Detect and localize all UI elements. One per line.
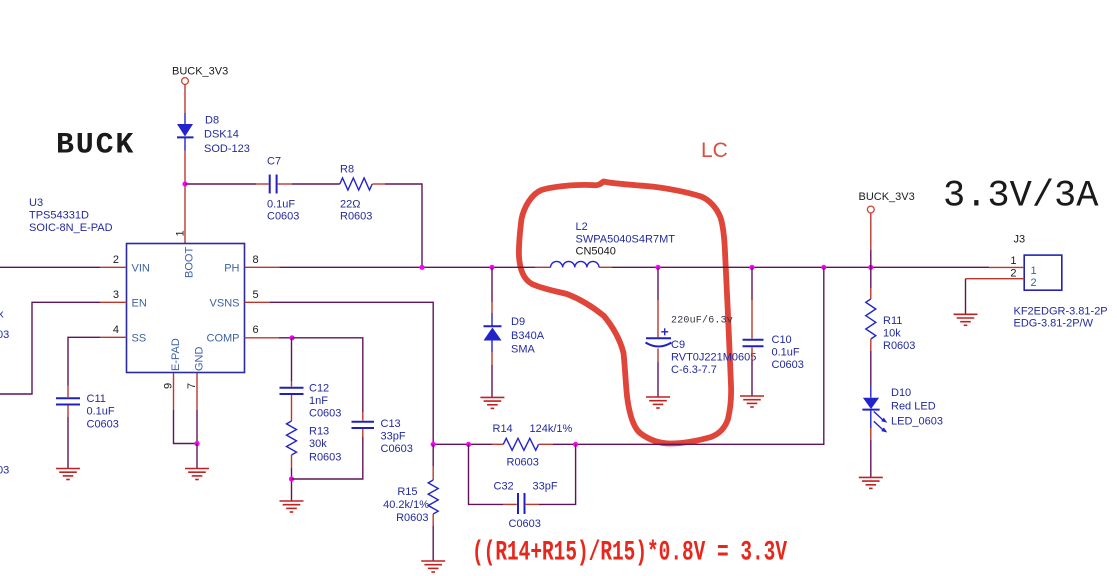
resistor R15 40.2k/1% (428, 480, 438, 514)
wire R8 to PH net (372, 183, 385, 185)
ground (C9) (646, 397, 670, 408)
svg-text:R11: R11 (883, 315, 902, 327)
svg-text:R8: R8 (340, 164, 354, 176)
resistor R13 30k (287, 421, 297, 455)
wire EN net to left edge (100, 301, 127, 303)
svg-text:EN: EN (132, 298, 147, 310)
wire C32 loop (469, 444, 504, 504)
wire BUCK_3V3 to D8 anode (184, 85, 186, 114)
svg-text:1nF: 1nF (309, 395, 328, 407)
svg-text:C0603: C0603 (381, 443, 413, 455)
svg-text:3: 3 (113, 289, 119, 301)
ground (U3 GND) (185, 469, 209, 480)
svg-text:1: 1 (175, 230, 187, 236)
node BUCK_3V3 branch (868, 265, 873, 270)
svg-text:SOIC-8N_E-PAD: SOIC-8N_E-PAD (29, 222, 113, 234)
svg-text:L2: L2 (576, 221, 588, 233)
ground (C10) (740, 396, 764, 407)
node C9 branch (655, 265, 660, 270)
svg-text:C0603: C0603 (509, 518, 541, 530)
svg-text:C0603: C0603 (309, 408, 341, 420)
node R13/C13 junction (289, 476, 294, 481)
svg-text:1: 1 (1031, 265, 1037, 277)
svg-text:C9: C9 (671, 339, 685, 351)
ground (C11) (56, 469, 80, 480)
wire D8 cathode to BOOT pin 1 (184, 151, 186, 244)
ground (D9) (480, 397, 504, 408)
wire C7 to R8 (278, 183, 292, 185)
svg-text:0.1uF: 0.1uF (772, 347, 800, 359)
node C32 left junction (466, 442, 471, 447)
svg-text:0.1uF: 0.1uF (87, 406, 115, 418)
diode D9 B340A (491, 313, 493, 326)
svg-text:7: 7 (186, 383, 198, 389)
wire output to J3 pin 1 (989, 266, 1024, 268)
svg-text:220uF/6.3v: 220uF/6.3v (671, 315, 733, 327)
node E-PAD/GND junction (194, 441, 199, 446)
wire C10 to ground (751, 348, 753, 361)
resistor R14 124k/1% (503, 438, 538, 450)
resistor R11 10k (866, 299, 876, 339)
inductor L2 SWPA5040S4R7MT (551, 261, 600, 267)
node C32 right junction (573, 442, 578, 447)
wire C12 to R13 (291, 395, 293, 421)
svg-text:CN5040: CN5040 (576, 246, 616, 258)
svg-text:TPS54331D: TPS54331D (29, 210, 89, 222)
svg-text:COMP: COMP (207, 333, 240, 345)
wire D9 to ground (491, 352, 493, 365)
wire VSNS net down to feedback (270, 302, 433, 444)
wire BUCK_3V3 down to output net (870, 213, 872, 250)
svg-text:VSNS: VSNS (210, 298, 240, 310)
svg-text:124k/1%: 124k/1% (530, 423, 573, 435)
wire boot node to C7 (185, 183, 256, 185)
wire COMP to C12 (291, 338, 293, 381)
svg-text:R0603: R0603 (340, 211, 372, 223)
svg-text:C12: C12 (309, 383, 329, 395)
wire D10 to ground (870, 428, 872, 440)
LED D10 Red LED (870, 385, 872, 398)
svg-text:03: 03 (0, 329, 9, 341)
svg-text:33pF: 33pF (381, 431, 406, 443)
svg-text:((R14+R15)/R15)*0.8V = 3.3V: ((R14+R15)/R15)*0.8V = 3.3V (472, 538, 787, 569)
node boot junction (182, 181, 187, 186)
svg-text:C0603: C0603 (772, 359, 804, 371)
wire GND pin 7 (196, 373, 198, 410)
svg-text:SS: SS (132, 333, 147, 345)
svg-text:DSK14: DSK14 (204, 129, 239, 141)
connector J3 KF2EDGR-3.81-2P (1024, 255, 1062, 290)
capacitor C32 33pF (517, 493, 519, 514)
wire C10 branch (751, 267, 753, 300)
svg-text:SMA: SMA (511, 344, 536, 356)
wire C11 to ground (67, 406, 69, 418)
node D9 branch (489, 265, 494, 270)
svg-text:03: 03 (0, 465, 9, 477)
wire to ground (196, 444, 198, 469)
svg-text:EDG-3.81-2P/W: EDG-3.81-2P/W (1014, 318, 1094, 330)
wire pin 6 COMP stub (245, 337, 280, 339)
wire E-PAD pin 9 (173, 373, 175, 410)
svg-text:C-6.3-7.7: C-6.3-7.7 (671, 364, 717, 376)
svg-text:E-PAD: E-PAD (170, 338, 182, 371)
red hand-drawn LC circle (519, 182, 731, 444)
wire D9 branch (491, 267, 493, 302)
svg-text:R0603: R0603 (883, 340, 915, 352)
svg-text:R0603: R0603 (396, 512, 428, 524)
svg-text:C7: C7 (267, 156, 281, 168)
svg-text:2: 2 (1031, 277, 1037, 289)
svg-text:BUCK_3V3: BUCK_3V3 (172, 66, 228, 78)
svg-text:LED_0603: LED_0603 (891, 416, 943, 428)
IC U3 TPS54331D (127, 244, 245, 373)
node feedback branch (821, 265, 826, 270)
wire PH net main (280, 266, 536, 268)
svg-text:SOD-123: SOD-123 (204, 143, 250, 155)
capacitor C13 33pF (352, 421, 375, 423)
capacitor C7 0.1uF (269, 175, 271, 194)
diode D8 DSK14 (184, 113, 186, 124)
svg-text:PH: PH (224, 263, 239, 275)
svg-text:U3: U3 (29, 197, 43, 209)
svg-text:6: 6 (253, 324, 259, 336)
wire R13 to ground node (291, 455, 293, 468)
svg-text:BUCK_3V3: BUCK_3V3 (859, 191, 915, 203)
svg-text:1: 1 (1010, 255, 1016, 267)
wire feedback net: bottom row (433, 443, 492, 445)
capacitor C12 1nF (280, 387, 304, 389)
svg-text:40.2k/1%: 40.2k/1% (383, 499, 429, 511)
svg-text:C0603: C0603 (87, 419, 119, 431)
svg-text:R0603: R0603 (507, 457, 539, 469)
wire J3 pin 2 to ground (966, 278, 1025, 280)
wire VIN net to left edge (0, 266, 100, 268)
svg-text:4: 4 (113, 324, 119, 336)
svg-text:C11: C11 (87, 393, 106, 405)
svg-text:2: 2 (1010, 268, 1016, 280)
svg-text:SWPA5040S4R7MT: SWPA5040S4R7MT (576, 234, 676, 246)
svg-text:9: 9 (163, 383, 175, 389)
svg-text:LC: LC (701, 139, 728, 162)
svg-text:D8: D8 (205, 115, 219, 127)
svg-text:0.1uF: 0.1uF (267, 199, 295, 211)
svg-text:KF2EDGR-3.81-2P: KF2EDGR-3.81-2P (1014, 306, 1108, 318)
svg-text:C32: C32 (494, 481, 514, 493)
wire R15 to ground (432, 514, 434, 526)
wire output net to R11 (870, 267, 872, 288)
svg-text:R14: R14 (493, 423, 513, 435)
svg-text:3.3V/3A: 3.3V/3A (943, 176, 1099, 218)
wire C9 to ground (657, 349, 659, 363)
wire COMP loop to C13 (292, 338, 363, 412)
svg-text:8: 8 (253, 254, 259, 266)
node C10 branch (749, 265, 754, 270)
svg-text:22Ω: 22Ω (340, 199, 360, 211)
wire pin 8 PH stub (245, 266, 280, 268)
ground (J3) (954, 314, 978, 325)
wire pin 5 VSNS stub (245, 301, 271, 303)
svg-text:R13: R13 (309, 426, 329, 438)
wire C9 branch (657, 267, 659, 300)
svg-text:BOOT: BOOT (184, 247, 196, 278)
capacitor C10 0.1uF (743, 339, 764, 341)
capacitor C9 220uF polarized (661, 331, 668, 333)
svg-text:R0603: R0603 (309, 452, 341, 464)
svg-text:B340A: B340A (511, 330, 545, 342)
svg-text:C0603: C0603 (267, 211, 299, 223)
wire feedback to output (553, 267, 824, 444)
node COMP junction (289, 335, 294, 340)
svg-text:33pF: 33pF (533, 481, 558, 493)
ground (R15) (421, 561, 445, 572)
svg-text:k: k (0, 309, 4, 321)
svg-text:R15: R15 (397, 486, 417, 498)
svg-text:BUCK: BUCK (56, 129, 135, 163)
ground (R13) (280, 501, 304, 512)
svg-text:J3: J3 (1014, 234, 1026, 246)
svg-text:30k: 30k (309, 438, 327, 450)
svg-text:Red LED: Red LED (891, 401, 936, 413)
wire C13 to R13 bottom (362, 429, 364, 437)
node R8 branch (419, 265, 424, 270)
wire R11 to D10 (870, 339, 872, 351)
resistor R8 22ohm (340, 178, 372, 190)
svg-text:RVT0J221M0605: RVT0J221M0605 (671, 352, 756, 364)
node VSNS/R15 junction (431, 442, 436, 447)
wire SS net to C11 (100, 336, 127, 338)
svg-text:VIN: VIN (132, 263, 150, 275)
svg-text:5: 5 (253, 289, 259, 301)
svg-text:C10: C10 (772, 334, 792, 346)
svg-text:2: 2 (113, 254, 119, 266)
svg-text:D10: D10 (891, 387, 911, 399)
svg-text:10k: 10k (883, 328, 901, 340)
wire PH net to output (612, 266, 989, 268)
svg-text:GND: GND (194, 347, 206, 372)
svg-text:D9: D9 (511, 316, 525, 328)
wire R15 branch (432, 444, 434, 466)
capacitor C11 0.1uF (56, 397, 80, 399)
ground (D10) (859, 477, 883, 488)
svg-text:C13: C13 (381, 418, 401, 430)
